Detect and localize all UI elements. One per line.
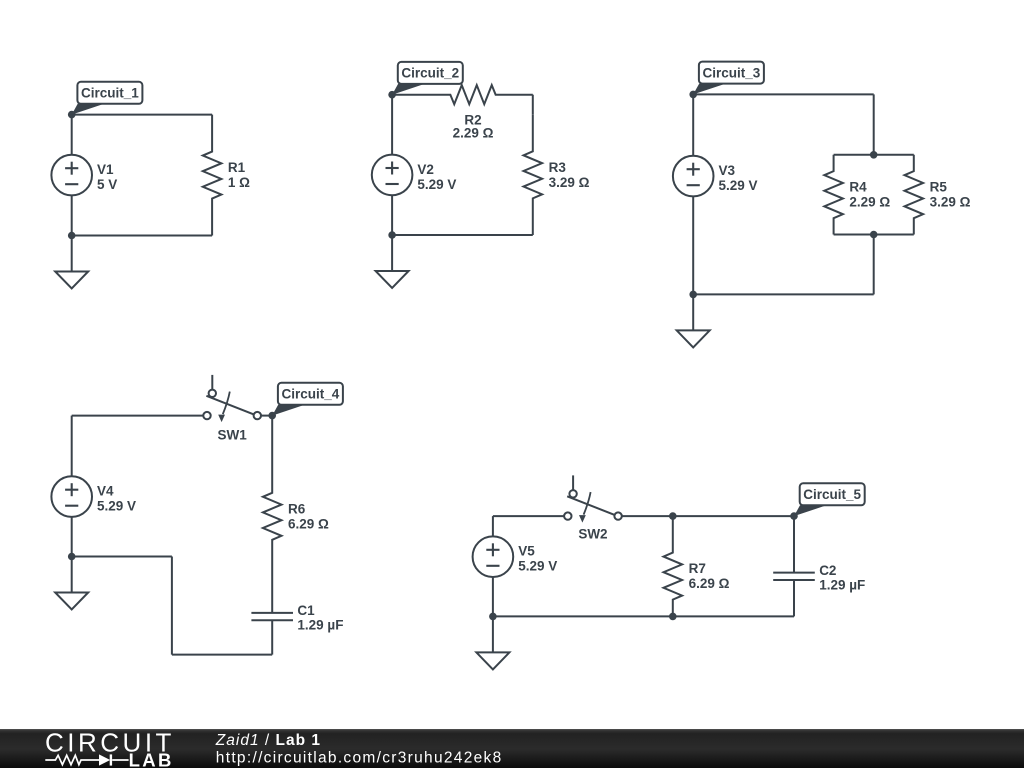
footer url: [216, 750, 503, 767]
node R7 bottom junction: [669, 613, 677, 621]
svg-text:1.29 µF: 1.29 µF: [819, 577, 865, 592]
wire down from parallel pair: [873, 235, 875, 295]
node Circuit_5 junction: [790, 512, 798, 520]
node label Circuit_4: [272, 383, 343, 416]
wire bottom rail circuit 5: [493, 615, 794, 617]
node Circuit_3 junction: [689, 91, 697, 99]
wire top rail circuit 5: [493, 515, 564, 517]
svg-text:1 Ω: 1 Ω: [228, 175, 250, 190]
wire parallel bottom rail: [834, 234, 914, 236]
svg-text:http://circuitlab.com/cr3ruhu2: http://circuitlab.com/cr3ruhu242ek8: [216, 750, 503, 767]
svg-text:6.29 Ω: 6.29 Ω: [689, 576, 730, 591]
svg-text:V2: V2: [417, 162, 434, 177]
voltage source V4: [51, 476, 136, 517]
svg-text:C1: C1: [297, 603, 315, 618]
node bottom junction circuit 2: [388, 231, 396, 239]
wire switch to Circuit_5 node: [622, 515, 794, 517]
svg-text:SW1: SW1: [218, 428, 248, 443]
wire V3 bottom lead: [692, 196, 694, 294]
svg-text:Zaid1 / Lab 1: Zaid1 / Lab 1: [215, 732, 321, 749]
wire V1 bottom lead: [71, 195, 73, 235]
svg-text:R7: R7: [689, 561, 706, 576]
node bottom junction circuit 4: [68, 553, 76, 561]
voltage source V3: [673, 156, 758, 197]
voltage source V5: [473, 536, 558, 577]
svg-text:6.29 Ω: 6.29 Ω: [288, 516, 329, 531]
wire V2 top lead: [391, 95, 393, 155]
svg-text:LAB: LAB: [129, 750, 174, 768]
CircuitLab logo: [45, 727, 175, 768]
svg-text:V1: V1: [97, 162, 114, 177]
svg-text:5.29 V: 5.29 V: [518, 559, 557, 574]
ground circuit 2: [376, 235, 409, 288]
wire top rail circuit 4: [72, 415, 204, 417]
node Circuit_2 junction: [388, 91, 396, 99]
switch SW1: [203, 375, 261, 443]
footer bar: [0, 729, 1024, 768]
wire bottom rail circuit 1: [72, 235, 212, 237]
svg-text:C2: C2: [819, 563, 836, 578]
node label Circuit_5: [794, 483, 865, 516]
ground circuit 1: [55, 236, 88, 289]
wire top rail circuit 3: [693, 94, 874, 154]
svg-text:3.29 Ω: 3.29 Ω: [930, 195, 971, 210]
wire V4 top lead: [71, 416, 73, 477]
wire bottom rail circuit 2: [392, 234, 533, 236]
ground circuit 3: [677, 294, 710, 347]
svg-text:2.29 Ω: 2.29 Ω: [849, 195, 890, 210]
svg-text:Circuit_4: Circuit_4: [282, 387, 340, 402]
node parallel top junction: [870, 151, 878, 159]
wire V3 top lead: [692, 94, 694, 155]
wire bottom rail circuit 4: [72, 557, 273, 655]
resistor R7: [664, 516, 730, 616]
wire bottom rail circuit 3: [693, 293, 874, 295]
svg-text:R5: R5: [930, 180, 948, 195]
node bottom junction circuit 5: [489, 613, 497, 621]
voltage source V2: [372, 155, 457, 196]
node label Circuit_2: [392, 62, 463, 95]
node label Circuit_3: [693, 62, 764, 95]
resistor R6: [263, 416, 329, 576]
svg-text:Circuit_1: Circuit_1: [81, 86, 139, 101]
node bottom junction circuit 1: [68, 232, 76, 240]
capacitor C1: [251, 576, 343, 655]
svg-text:V5: V5: [518, 544, 535, 559]
resistor R5: [905, 155, 971, 235]
svg-text:1.29 µF: 1.29 µF: [297, 618, 343, 633]
voltage source V1: [51, 155, 117, 196]
wire parallel top rail: [834, 154, 914, 156]
ground circuit 4: [55, 557, 88, 610]
wire V5 bottom lead: [492, 577, 494, 616]
wire top rail circuit 1: [72, 114, 212, 116]
node R7 top junction: [669, 512, 677, 520]
resistor R3: [524, 115, 590, 235]
wire V5 top lead: [492, 516, 494, 536]
svg-text:V4: V4: [97, 484, 114, 499]
svg-text:R6: R6: [288, 501, 306, 516]
svg-text:5.29 V: 5.29 V: [417, 177, 456, 192]
resistor R1: [203, 115, 250, 236]
capacitor C2: [773, 516, 865, 616]
node bottom junction circuit 3: [689, 291, 697, 299]
resistor R4: [824, 155, 890, 235]
svg-text:R1: R1: [228, 160, 246, 175]
node label Circuit_1: [72, 82, 143, 115]
node Circuit_1 junction: [68, 111, 76, 119]
svg-text:R3: R3: [549, 160, 567, 175]
svg-text:5.29 V: 5.29 V: [97, 499, 136, 514]
svg-text:5 V: 5 V: [97, 177, 117, 192]
node parallel bottom junction: [870, 231, 878, 239]
svg-text:R4: R4: [849, 180, 867, 195]
wire right rail circuit 2: [532, 95, 534, 115]
svg-text:SW2: SW2: [578, 527, 607, 542]
svg-text:Circuit_5: Circuit_5: [803, 487, 861, 502]
svg-text:V3: V3: [719, 163, 736, 178]
svg-text:5.29 V: 5.29 V: [719, 178, 758, 193]
switch SW2: [564, 475, 622, 541]
wire V2 bottom lead: [391, 195, 393, 235]
wire V4 bottom lead: [71, 517, 73, 557]
wire V1 top lead: [71, 115, 73, 155]
footer title Zaid1 / Lab 1: [215, 732, 321, 749]
ground circuit 5: [476, 616, 509, 669]
svg-text:Circuit_3: Circuit_3: [703, 65, 761, 80]
svg-text:3.29 Ω: 3.29 Ω: [549, 175, 590, 190]
wire switch to node circuit 4: [261, 415, 272, 417]
resistor R2 with top rail circuit 2: [392, 85, 533, 140]
svg-text:Circuit_2: Circuit_2: [401, 66, 459, 81]
svg-text:2.29 Ω: 2.29 Ω: [453, 126, 494, 141]
node Circuit_4 junction: [268, 412, 276, 420]
